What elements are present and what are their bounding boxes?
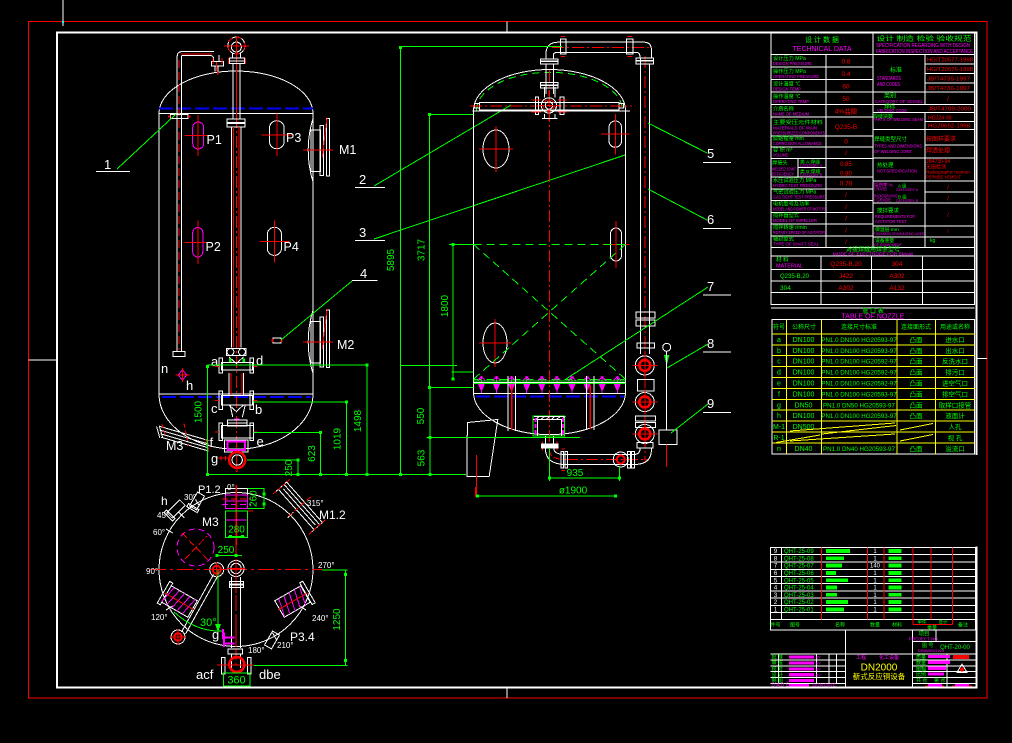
svg-text:BY: BY	[816, 655, 822, 660]
svg-text:QHT-20-00: QHT-20-00	[940, 645, 970, 651]
svg-text:HG/T20576-1998: HG/T20576-1998	[927, 67, 973, 73]
plan dim 280 box	[225, 511, 247, 537]
svg-text:CATEGORY B: CATEGORY B	[896, 198, 918, 203]
svg-text:360: 360	[227, 675, 245, 687]
svg-text:SIGN DATE: SIGN DATE	[812, 682, 836, 687]
svg-text:260: 260	[249, 490, 260, 507]
plan nozzle M3 dashed circle	[177, 529, 214, 566]
svg-text:用途或名称: 用途或名称	[940, 323, 970, 331]
plan bottom pipe	[231, 577, 233, 648]
svg-text:凸面: 凸面	[910, 358, 924, 366]
marker h diamond	[178, 370, 187, 380]
plan nozzle M1.2 (315 deg)	[271, 477, 329, 537]
plan nozzle stub (30 deg)	[187, 491, 206, 513]
cross fitting a-d	[222, 363, 253, 371]
dip pipe n inlet flange	[212, 61, 224, 66]
svg-text:h: h	[161, 494, 168, 508]
svg-text:BY: BY	[816, 661, 822, 666]
svg-text:DN100: DN100	[793, 381, 815, 388]
svg-text:VOLUME: VOLUME	[773, 153, 788, 159]
svg-text:1250: 1250	[332, 608, 343, 631]
svg-text:DN100: DN100	[793, 413, 815, 420]
davit bar	[480, 103, 619, 110]
svg-text:HGJ24-99: HGJ24-99	[928, 116, 952, 122]
svg-text:共 张: 共 张	[916, 677, 927, 684]
svg-text:M1.2: M1.2	[319, 508, 346, 522]
dim 3717 line	[429, 114, 431, 387]
svg-text:AND CODES: AND CODES	[877, 82, 901, 88]
sample line	[666, 351, 668, 430]
svg-text:HYDRO TEST PRESSURE: HYDRO TEST PRESSURE	[773, 183, 822, 189]
svg-text:Q235-B,20: Q235-B,20	[780, 274, 810, 280]
svg-text:DESIGN TEMP: DESIGN TEMP	[773, 86, 801, 92]
svg-text:OPERATING PRESSURE: OPERATING PRESSURE	[773, 74, 819, 80]
svg-text:Q235-B: Q235-B	[835, 124, 857, 131]
svg-text:5: 5	[707, 146, 714, 161]
svg-text:PN1.0 DN100 HG20593-97: PN1.0 DN100 HG20593-97	[821, 413, 897, 420]
svg-text:QHT-25-05: QHT-25-05	[784, 578, 814, 584]
svg-text:250: 250	[284, 459, 295, 476]
svg-text:2: 2	[359, 172, 366, 187]
riser flange pair 2	[541, 83, 559, 86]
svg-text:QHT-25-07: QHT-25-07	[784, 564, 814, 570]
bottom outlet hatched box	[533, 416, 565, 436]
svg-text:J422: J422	[839, 273, 853, 280]
svg-text:f: f	[210, 435, 214, 450]
svg-text:120°: 120°	[151, 613, 168, 622]
svg-text:OF WELDING JOINT: OF WELDING JOINT	[874, 149, 912, 155]
svg-text:M2: M2	[337, 338, 354, 352]
svg-text:NOT SPECIFICATION: NOT SPECIFICATION	[877, 169, 917, 175]
svg-text:DN50: DN50	[795, 402, 813, 409]
center dip pipe (upper)	[232, 63, 234, 119]
svg-text:180°: 180°	[248, 646, 265, 655]
valve V1 on downpipe	[635, 356, 654, 375]
svg-text:280: 280	[228, 525, 245, 536]
svg-text:30°: 30°	[200, 617, 217, 629]
plan dim 360	[223, 673, 250, 686]
svg-text:热处理: 热处理	[877, 161, 894, 169]
dim 563 line	[429, 438, 431, 475]
left centering tick	[29, 359, 57, 361]
nozzle table title band	[771, 307, 975, 309]
svg-text:凸面: 凸面	[910, 369, 924, 377]
svg-text:按图样要求: 按图样要求	[926, 135, 956, 143]
svg-text:搅拌转速 r/min: 搅拌转速 r/min	[773, 223, 807, 231]
svg-text:/: /	[845, 192, 847, 199]
svg-text:备注: 备注	[958, 622, 968, 629]
extension line y244.4	[449, 243, 474, 245]
svg-text:FABRICATION INSPECTION AND ACC: FABRICATION INSPECTION AND ACCEPTANCE	[876, 49, 974, 55]
svg-text:QHT-25-01: QHT-25-01	[784, 608, 814, 614]
svg-text:电机型号及功率: 电机型号及功率	[773, 200, 809, 208]
dim 5895 line	[399, 47, 401, 474]
bottom pipe valve	[613, 452, 628, 467]
svg-text:人孔: 人孔	[949, 423, 963, 431]
left vessel liquid level line (top)	[159, 107, 313, 109]
svg-text:反洗水口: 反洗水口	[942, 357, 968, 366]
svg-text:TECHNICAL DATA: TECHNICAL DATA	[793, 46, 852, 53]
svg-text:GAS TIGHT TEST PRESSURE: GAS TIGHT TEST PRESSURE	[773, 195, 825, 201]
svg-text:1019: 1019	[333, 427, 344, 450]
nozzle P4	[267, 227, 281, 255]
svg-text:TYPE OF SHAFT SEAL: TYPE OF SHAFT SEAL	[773, 242, 819, 248]
flange pair above f-e	[227, 420, 247, 423]
svg-text:P3.4: P3.4	[290, 630, 315, 644]
nozzle table diagonal slashes	[790, 423, 895, 431]
svg-text:THICKNESS OF INSULATING LAYER: THICKNESS OF INSULATING LAYER	[874, 231, 924, 236]
svg-text:凸面: 凸面	[910, 401, 924, 409]
extension 1250 bottom	[254, 664, 348, 666]
svg-text:7: 7	[707, 279, 714, 294]
svg-text:d: d	[777, 370, 781, 377]
valve V3 on downpipe	[635, 425, 654, 444]
left vessel top tangent line	[159, 113, 313, 115]
dim 1498 line	[366, 365, 368, 475]
svg-text:BY: BY	[816, 672, 822, 677]
riser pipe	[545, 64, 547, 94]
svg-text:90°: 90°	[146, 567, 158, 576]
top pipe flange left	[560, 39, 566, 54]
svg-text:9: 9	[707, 396, 714, 411]
plan top nozzle flange	[225, 488, 247, 495]
bottom pipe flange plates	[561, 451, 564, 468]
svg-text:0°: 0°	[227, 483, 235, 492]
svg-text:a: a	[777, 337, 781, 344]
svg-text:e: e	[257, 434, 264, 449]
nozzle capsule mid-right	[611, 228, 622, 261]
svg-text:视 孔: 视 孔	[948, 433, 963, 442]
svg-text:介质名称: 介质名称	[773, 104, 794, 112]
svg-text:a: a	[211, 354, 219, 369]
extension line y402	[253, 401, 347, 403]
svg-text:/: /	[845, 204, 847, 211]
left vessel bottom tangent line	[159, 393, 313, 395]
svg-text:1: 1	[104, 157, 111, 172]
svg-text:PN1.0 DN40 HG20593-97: PN1.0 DN40 HG20593-97	[823, 446, 895, 453]
extension line y372	[452, 371, 474, 373]
left vessel liquid level line (bottom)	[162, 396, 311, 398]
extension line y365	[207, 364, 368, 366]
svg-text:搅拌器型式: 搅拌器型式	[773, 211, 800, 219]
svg-text:TYPES AND DIMENSIONS: TYPES AND DIMENSIONS	[874, 144, 922, 150]
svg-text:b: b	[777, 348, 781, 355]
dip pipe n bottom flange	[173, 352, 185, 357]
svg-text:凸面: 凸面	[910, 380, 924, 388]
dim 1500 line	[206, 365, 208, 475]
svg-text:6: 6	[707, 212, 714, 227]
svg-text:8: 8	[707, 336, 714, 351]
svg-text:焊透处理: 焊透处理	[926, 147, 950, 155]
svg-text:PERMBE VEMEAT: PERMBE VEMEAT	[926, 175, 961, 180]
svg-text:设 计 数 据: 设 计 数 据	[805, 35, 839, 44]
plan view shell circle	[159, 493, 313, 647]
svg-text:PN1.0 DN100 HG20593-97: PN1.0 DN100 HG20593-97	[821, 391, 897, 398]
svg-text:HG20652-1998: HG20652-1998	[928, 124, 970, 130]
funnel below c-b	[229, 405, 244, 412]
svg-text:DN100: DN100	[793, 337, 815, 344]
svg-text:设计压力 MPa: 设计压力 MPa	[773, 54, 806, 62]
svg-text:MODEL OF IMPELLER: MODEL OF IMPELLER	[773, 218, 817, 224]
svg-text:第 张: 第 张	[934, 677, 945, 684]
svg-text:DN40: DN40	[795, 446, 813, 453]
svg-text:CATEGORY A: CATEGORY A	[800, 163, 822, 168]
svg-text:QHT-25-02: QHT-25-02	[784, 600, 814, 606]
svg-text:n: n	[161, 361, 168, 376]
svg-text:acf: acf	[196, 667, 214, 682]
svg-text:0: 0	[844, 139, 848, 146]
svg-text:凸面: 凸面	[910, 347, 924, 355]
svg-text:材料: 材料	[892, 622, 902, 629]
top elbow right	[644, 42, 651, 58]
right downpipe flange 1	[636, 58, 653, 61]
svg-text:4%盐酸: 4%盐酸	[835, 107, 858, 116]
svg-text:QHT-25-08: QHT-25-08	[784, 556, 814, 562]
svg-text:M3: M3	[202, 515, 219, 529]
bottom right elbow	[634, 448, 651, 465]
svg-text:NAME OF MEDIUM: NAME OF MEDIUM	[773, 111, 809, 117]
svg-text:0.4: 0.4	[841, 71, 850, 78]
plan nozzle h stub (45 deg)	[164, 498, 187, 521]
svg-text:g: g	[211, 451, 218, 466]
middle vessel bottom tangent line	[474, 393, 626, 395]
svg-text:304: 304	[892, 261, 903, 268]
svg-text:A302: A302	[889, 273, 905, 280]
svg-text:Q235-B,20: Q235-B,20	[830, 261, 862, 268]
svg-text:315°: 315°	[307, 499, 324, 508]
plan agitator hub	[210, 563, 224, 577]
bottom outlet flange	[541, 444, 558, 449]
riser flange pair	[541, 59, 559, 61]
right downpipe flange 3	[637, 343, 655, 348]
svg-text:PN1.0 DN50 HG20593-97: PN1.0 DN50 HG20593-97	[823, 402, 895, 409]
svg-text:连接尺寸标准: 连接尺寸标准	[841, 323, 877, 331]
svg-text:/: /	[845, 216, 847, 223]
plan nozzle 120 deg	[157, 581, 200, 620]
svg-text:操作压力 MPa: 操作压力 MPa	[773, 67, 806, 75]
discharge box	[225, 440, 249, 452]
svg-text:JB/T4736-1997: JB/T4736-1997	[927, 86, 970, 92]
svg-text:A302: A302	[838, 285, 854, 292]
downcomer pipe right	[586, 376, 588, 430]
svg-text:c: c	[777, 359, 781, 366]
svg-text:HG/T20577-1998: HG/T20577-1998	[927, 58, 973, 64]
svg-text:60: 60	[842, 84, 850, 91]
svg-text:563: 563	[417, 449, 428, 466]
svg-text:工程: 工程	[856, 654, 866, 661]
nozzle P3	[269, 121, 284, 149]
svg-text:PN1.0 DN100 HG20593-97: PN1.0 DN100 HG20593-97	[821, 337, 897, 344]
support leg	[467, 420, 498, 477]
svg-text:水压试验压力 MPa: 水压试验压力 MPa	[773, 176, 816, 184]
dip pipe n level flange	[171, 115, 189, 119]
right downpipe bottom flange	[637, 443, 653, 448]
nozzle table grid	[772, 319, 975, 453]
spray nozzle header row	[478, 378, 485, 381]
downcomer pipe left	[507, 376, 509, 431]
plan bottom stub	[231, 654, 233, 668]
top pipe centerline	[50, 46, 550, 48]
svg-text:P3: P3	[286, 131, 301, 145]
svg-text:M-1: M-1	[773, 424, 785, 431]
svg-text:斱式反应铜设备: 斱式反应铜设备	[853, 671, 906, 681]
sample pot	[659, 430, 677, 445]
bottom elbow	[545, 448, 566, 464]
svg-text:d: d	[256, 353, 263, 368]
plan bottom flange	[228, 649, 242, 654]
svg-text:符号: 符号	[773, 323, 785, 331]
extension line y46.7	[400, 46, 562, 48]
svg-text:MODEL AND POWER OF MOTOR: MODEL AND POWER OF MOTOR	[773, 207, 825, 213]
riser upper	[545, 55, 547, 59]
sight glass lower-left	[483, 323, 507, 363]
svg-text:304: 304	[780, 285, 791, 292]
svg-text:n: n	[777, 446, 781, 453]
left vessel vertical centerline	[235, 36, 237, 472]
top horizontal pipe	[558, 41, 644, 43]
svg-text:1498: 1498	[353, 409, 364, 432]
svg-text:M3: M3	[166, 439, 183, 453]
extension line y387.7	[430, 387, 474, 389]
svg-text:设计温度 ℃: 设计温度 ℃	[773, 79, 800, 87]
extension line y437.7	[427, 437, 580, 439]
svg-text:名称: 名称	[835, 622, 845, 629]
svg-text:P1.2: P1.2	[198, 484, 221, 496]
middle vessel spray support line	[474, 382, 626, 384]
center pipe (main run)	[231, 127, 233, 348]
svg-text:QHT-25-09: QHT-25-09	[784, 549, 814, 555]
svg-text:类别: 类别	[884, 92, 896, 100]
middle vessel top head green dashes	[477, 72, 623, 110]
svg-text:623: 623	[307, 445, 318, 462]
svg-text:5895: 5895	[386, 248, 397, 271]
middle vessel top tangent line	[472, 110, 630, 112]
svg-text:270°: 270°	[318, 561, 335, 570]
svg-text:MATERIAL: MATERIAL	[776, 264, 803, 270]
svg-text:BY: BY	[816, 666, 822, 671]
svg-text:3: 3	[359, 225, 366, 240]
bottom horizontal pipe	[566, 454, 634, 456]
bottom centering tick	[506, 688, 508, 699]
svg-text:PN1.0 DN100 HG20593-97: PN1.0 DN100 HG20593-97	[821, 348, 897, 355]
bottom valve V-notch a-d	[229, 357, 244, 364]
svg-text:/: /	[845, 227, 847, 234]
svg-text:轴封型式: 轴封型式	[773, 235, 795, 243]
svg-text:操作温度 ℃: 操作温度 ℃	[773, 92, 800, 100]
svg-text:OPERATING TEMP: OPERATING TEMP	[773, 99, 809, 105]
svg-text:DN100: DN100	[793, 370, 815, 377]
technical data table grid-right	[924, 55, 926, 105]
dim 250 line	[297, 460, 299, 475]
top centering tick	[506, 21, 508, 32]
middle vessel top head	[474, 70, 626, 111]
cross fitting c-b	[222, 396, 253, 405]
svg-text:材 料: 材 料	[776, 256, 789, 264]
internal cross brace diagonal 1	[474, 244, 626, 379]
magenta seal tick	[234, 419, 240, 421]
manway M2	[308, 309, 313, 374]
svg-text:/: /	[845, 150, 847, 157]
nozzle P1	[193, 122, 204, 149]
svg-text:0.80: 0.80	[840, 172, 852, 178]
right centering tick	[976, 358, 987, 360]
svg-text:3717: 3717	[417, 238, 428, 261]
svg-text:排污口: 排污口	[945, 368, 965, 377]
plan angle tick marks	[196, 499, 200, 506]
svg-text:进空气口: 进空气口	[942, 379, 968, 388]
left vessel bottom head	[159, 394, 313, 449]
svg-text:QHT-25-03: QHT-25-03	[784, 593, 814, 599]
svg-text:进水口: 进水口	[945, 335, 965, 344]
svg-text:DESIGN PRESSURE: DESIGN PRESSURE	[773, 61, 812, 67]
cross fitting f-e	[222, 426, 254, 438]
bottom pipe flange right	[627, 451, 630, 468]
svg-text:1500: 1500	[194, 400, 205, 423]
svg-text:kg: kg	[930, 238, 936, 244]
svg-text:dbe: dbe	[259, 667, 281, 682]
plan top nozzle magenta body	[225, 495, 247, 509]
top center cross fitting	[544, 87, 546, 97]
internal cross brace top line	[474, 243, 626, 245]
flange pair V2-V3	[636, 416, 656, 421]
svg-text:主要受压元件材料: 主要受压元件材料	[773, 118, 823, 126]
svg-text:1800: 1800	[440, 294, 451, 317]
plan arm end circle	[171, 630, 185, 644]
dip pipe n vertical run	[176, 56, 178, 352]
plan view horizontal centerline	[150, 569, 322, 571]
g flange ticks	[220, 456, 222, 461]
top pipe flange right	[627, 39, 633, 54]
dim 550 line	[429, 388, 431, 438]
BOM table grid	[770, 547, 975, 630]
svg-text:PRESSURIZED COMPONENTS: PRESSURIZED COMPONENTS	[773, 131, 825, 137]
nozzle M3	[160, 427, 209, 441]
plan dim 260	[248, 487, 265, 489]
svg-text:搅拌要求: 搅拌要求	[877, 207, 900, 215]
svg-text:MODE OF ELECTRODE FOR SMAW: MODE OF ELECTRODE FOR SMAW	[833, 252, 914, 258]
dim 1900	[478, 495, 616, 497]
plan pipe magenta ticks	[223, 633, 225, 648]
svg-text:0.78: 0.78	[840, 180, 853, 187]
internal cross brace diagonal 2	[474, 244, 626, 379]
svg-text:250: 250	[218, 545, 235, 556]
top nozzle neck	[232, 54, 234, 59]
svg-text:ROTARY SPEED OF AGITATOR: ROTARY SPEED OF AGITATOR	[773, 230, 825, 236]
svg-text:凸面: 凸面	[910, 336, 924, 344]
svg-text:P1: P1	[207, 133, 222, 147]
svg-text:VELDING CODE: VELDING CODE	[877, 108, 907, 113]
svg-text:焊接头: 焊接头	[772, 159, 788, 167]
svg-text:液面计: 液面计	[945, 411, 965, 420]
svg-text:0.8: 0.8	[841, 59, 850, 66]
svg-text:e: e	[777, 381, 781, 388]
pipe between a-d and c-b	[228, 373, 230, 396]
svg-text:JB/T4709-2000: JB/T4709-2000	[928, 107, 971, 113]
svg-text:/ GRADE: / GRADE	[874, 198, 891, 203]
extension 1250 top	[322, 569, 348, 571]
internal cross brace bottom line	[474, 378, 626, 380]
svg-text:CATEGORY B: CATEGORY B	[800, 172, 822, 177]
nozzle capsule upper-right	[609, 121, 622, 147]
dim 623 line	[320, 432, 322, 474]
extension line y114.3	[430, 113, 474, 115]
extension line y460	[247, 459, 298, 461]
svg-text:A132: A132	[889, 285, 905, 292]
top nozzle flange	[230, 58, 245, 63]
svg-text:h: h	[186, 378, 193, 393]
svg-text:化工设备: 化工设备	[879, 654, 899, 661]
svg-text:OF EQUIPMENT: OF EQUIPMENT	[874, 242, 903, 247]
